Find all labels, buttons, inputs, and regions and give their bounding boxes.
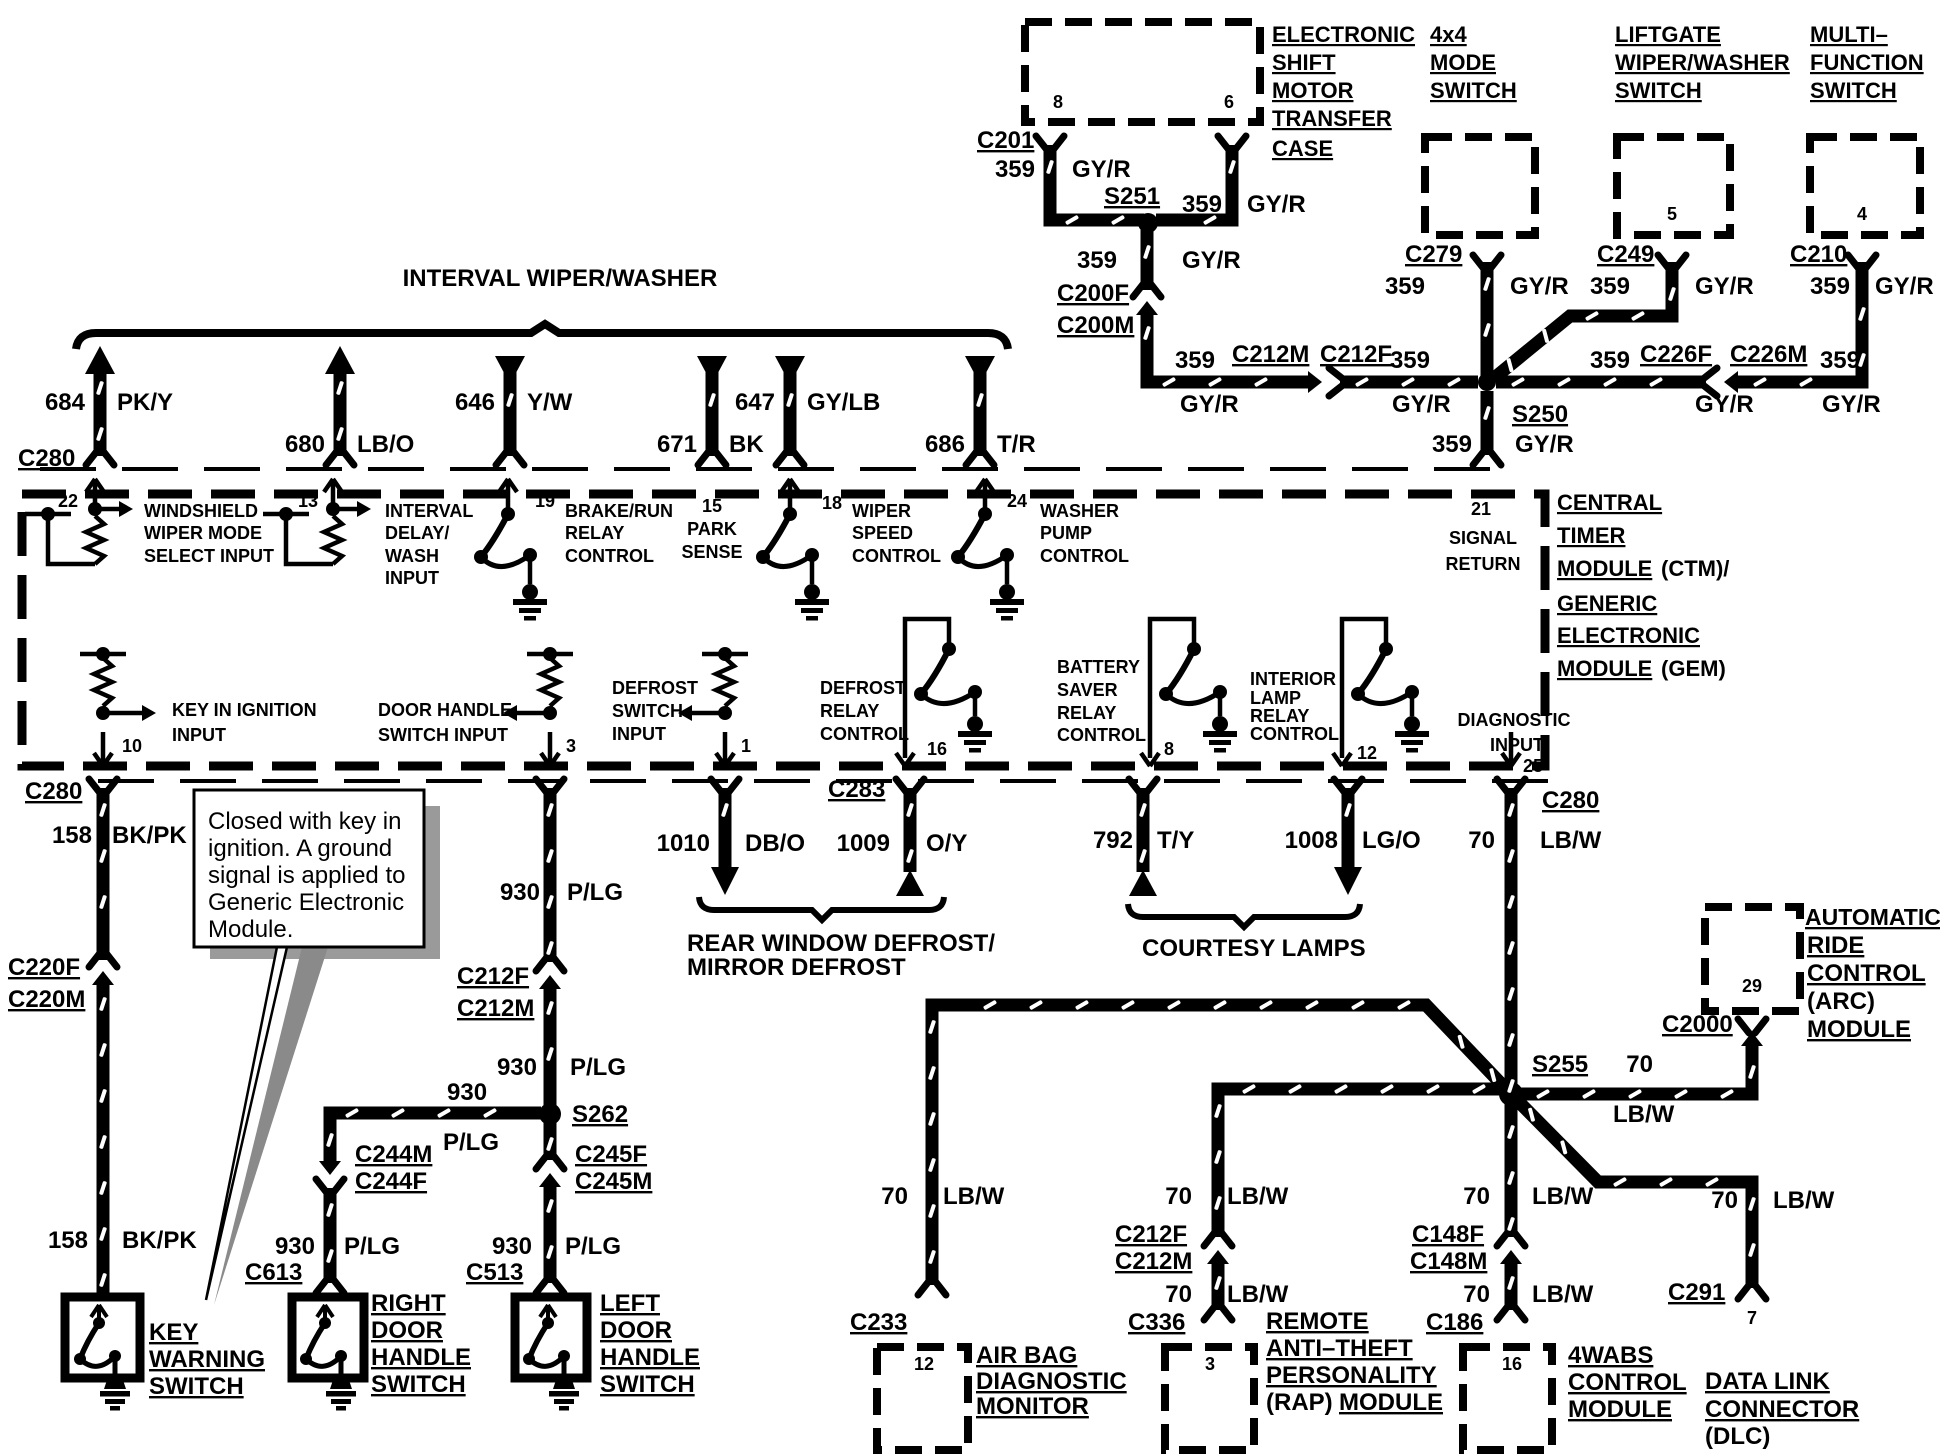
label BATTERY SAVER RELAY CONTROL xyxy=(1057,657,1146,745)
svg-text:GY/R: GY/R xyxy=(1182,247,1241,274)
arrow 1009 up-triangle xyxy=(896,870,924,896)
svg-text:6: 6 xyxy=(1224,92,1234,112)
svg-text:12: 12 xyxy=(914,1354,934,1374)
svg-text:1008: 1008 xyxy=(1285,827,1338,854)
svg-text:359: 359 xyxy=(1590,273,1630,300)
svg-text:8: 8 xyxy=(1053,92,1063,112)
svg-text:P/LG: P/LG xyxy=(565,1233,621,1260)
switch pin 16 (defrost relay control) xyxy=(896,619,992,766)
svg-text:INPUT: INPUT xyxy=(385,568,439,588)
svg-text:AUTOMATIC: AUTOMATIC xyxy=(1805,904,1940,930)
svg-text:5: 5 xyxy=(1667,204,1677,224)
svg-text:C226M: C226M xyxy=(1730,341,1807,368)
svg-text:SELECT INPUT: SELECT INPUT xyxy=(144,546,274,566)
wire 359 GY/R from S250 to CTM pin 21 xyxy=(1481,391,1494,455)
svg-text:CONTROL: CONTROL xyxy=(1807,960,1926,987)
wire 158 BK/PK from C220M to key warning switch xyxy=(97,982,110,1297)
svg-text:C249: C249 xyxy=(1597,241,1654,268)
svg-text:INPUT: INPUT xyxy=(1490,735,1544,755)
resistor input pin 1 (defrost switch) xyxy=(678,647,748,766)
svg-text:25: 25 xyxy=(1523,756,1543,776)
svg-text:CASE: CASE xyxy=(1272,136,1333,161)
switch pin 19 (brake/run relay control) xyxy=(474,479,547,621)
svg-text:GENERIC: GENERIC xyxy=(1557,591,1657,616)
pin 1 wire top flare xyxy=(711,779,739,793)
svg-text:INPUT: INPUT xyxy=(172,725,226,745)
wire 70 LB/W from CTM pin 25 through S255 to C148F xyxy=(1505,788,1518,1237)
label DOOR HANDLE SWITCH INPUT xyxy=(378,700,512,745)
svg-text:S251: S251 xyxy=(1104,183,1160,210)
label DEFROST RELAY CONTROL xyxy=(820,678,909,744)
label LEFT DOOR HANDLE SWITCH xyxy=(600,1290,700,1398)
wire 359 GY/R from S251 to C200 xyxy=(1141,230,1154,290)
svg-text:FUNCTION: FUNCTION xyxy=(1810,50,1924,75)
wire stripe highlights xyxy=(96,160,1866,1291)
svg-text:CONTROL: CONTROL xyxy=(852,546,941,566)
label INTERVAL DELAY/WASH INPUT xyxy=(385,501,473,588)
resistor input pin 13 (interval delay/wash) xyxy=(263,479,371,564)
connector line C280 (thin dashed, top of module) xyxy=(40,467,1508,471)
svg-text:MOTOR: MOTOR xyxy=(1272,78,1354,103)
callout pointer xyxy=(206,947,287,1300)
svg-text:C212F: C212F xyxy=(457,963,529,990)
svg-text:Module.: Module. xyxy=(208,916,293,943)
svg-text:BATTERY: BATTERY xyxy=(1057,657,1140,677)
svg-text:DATA LINK: DATA LINK xyxy=(1705,1368,1831,1395)
svg-text:RELAY: RELAY xyxy=(1057,703,1116,723)
svg-text:RELAY: RELAY xyxy=(820,701,879,721)
svg-text:GY/LB: GY/LB xyxy=(807,389,880,416)
svg-text:1: 1 xyxy=(741,736,751,756)
svg-text:MODULE: MODULE xyxy=(1568,1396,1672,1423)
svg-text:Y/W: Y/W xyxy=(527,389,573,416)
svg-text:SWITCH INPUT: SWITCH INPUT xyxy=(378,725,508,745)
wire 1009 O/Y from CTM pin 16 (C283) xyxy=(904,788,917,872)
svg-text:24: 24 xyxy=(1007,491,1027,511)
svg-text:CENTRAL: CENTRAL xyxy=(1557,490,1662,515)
svg-text:RELAY: RELAY xyxy=(1250,706,1309,726)
svg-text:TRANSFER: TRANSFER xyxy=(1272,106,1392,131)
wire 930 P/LG from S262 to C245F xyxy=(544,1122,557,1160)
svg-text:21: 21 xyxy=(1471,499,1491,519)
svg-text:359: 359 xyxy=(1810,273,1850,300)
svg-text:C212M: C212M xyxy=(457,995,534,1022)
svg-text:70: 70 xyxy=(1468,827,1495,854)
label BRAKE/RUN RELAY CONTROL xyxy=(565,501,673,566)
brace rear window defrost xyxy=(699,897,944,920)
svg-text:70: 70 xyxy=(1165,1183,1192,1210)
connector C200F/C200M (inline) xyxy=(1133,283,1161,315)
svg-text:(DLC): (DLC) xyxy=(1705,1423,1770,1450)
svg-text:PARK: PARK xyxy=(687,519,737,539)
label RIGHT DOOR HANDLE SWITCH xyxy=(371,1290,471,1398)
svg-text:KEY: KEY xyxy=(149,1319,198,1346)
svg-text:LEFT: LEFT xyxy=(600,1290,660,1317)
connector C244M/C244F (inline) xyxy=(316,1161,344,1193)
svg-text:WIPER: WIPER xyxy=(852,501,911,521)
svg-text:WASHER: WASHER xyxy=(1040,501,1119,521)
connector C210 flare xyxy=(1848,255,1876,269)
svg-text:DELAY/: DELAY/ xyxy=(385,523,449,543)
svg-text:P/LG: P/LG xyxy=(567,879,623,906)
splice S262 xyxy=(539,1103,561,1125)
svg-text:INPUT: INPUT xyxy=(612,724,666,744)
svg-text:BK: BK xyxy=(729,431,764,458)
wire 70 LB/W from S255 to air bag diagnostic monitor C233 xyxy=(932,1005,1508,1285)
svg-text:MULTI–: MULTI– xyxy=(1810,22,1888,47)
svg-text:C279: C279 xyxy=(1405,241,1462,268)
svg-text:T/Y: T/Y xyxy=(1157,827,1194,854)
wire 359 GY/R from transfer case pin 6 to S251 xyxy=(1156,145,1232,220)
svg-text:RIGHT: RIGHT xyxy=(371,1290,446,1317)
svg-text:3: 3 xyxy=(566,736,576,756)
svg-text:ELECTRONIC: ELECTRONIC xyxy=(1557,623,1700,648)
connector C513 flare xyxy=(536,1279,564,1293)
svg-text:LB/W: LB/W xyxy=(1532,1281,1594,1308)
svg-text:RETURN: RETURN xyxy=(1446,554,1521,574)
svg-text:GY/R: GY/R xyxy=(1247,191,1306,218)
svg-text:C148F: C148F xyxy=(1412,1221,1484,1248)
svg-text:15: 15 xyxy=(702,496,722,516)
pin 10 wire top flare xyxy=(89,779,117,793)
svg-text:29: 29 xyxy=(1742,976,1762,996)
svg-text:CONTROL: CONTROL xyxy=(565,546,654,566)
svg-text:signal is applied to: signal is applied to xyxy=(208,862,405,889)
label REAR WINDOW DEFROST/ MIRROR DEFROST xyxy=(687,930,995,981)
wire 686 T/R (pin riser) xyxy=(965,356,995,465)
svg-text:16: 16 xyxy=(927,739,947,759)
svg-text:C220F: C220F xyxy=(8,954,80,981)
svg-text:C244F: C244F xyxy=(355,1168,427,1195)
svg-text:LB/W: LB/W xyxy=(1773,1187,1835,1214)
bracket interval wiper/washer xyxy=(76,324,1008,349)
svg-text:MODULE: MODULE xyxy=(1557,656,1652,681)
svg-text:(CTM)/: (CTM)/ xyxy=(1661,556,1729,581)
svg-text:REMOTE: REMOTE xyxy=(1266,1308,1369,1335)
svg-text:1010: 1010 xyxy=(657,830,710,857)
pin 25 arrow (diagnostic input) xyxy=(1502,732,1520,766)
connector C212M/C212F (inline) xyxy=(1308,368,1343,396)
wire 70 LB/W from C148M to C186 xyxy=(1505,1261,1518,1310)
svg-text:MODULE: MODULE xyxy=(1807,1016,1911,1043)
wire 70 LB/W from C212M to C336 xyxy=(1212,1261,1225,1310)
svg-text:LB/W: LB/W xyxy=(1540,827,1602,854)
svg-text:C245F: C245F xyxy=(575,1141,647,1168)
svg-text:ignition. A ground: ignition. A ground xyxy=(208,835,392,862)
wire 1008 LG/O from CTM pin 12 xyxy=(1342,788,1355,868)
svg-text:3: 3 xyxy=(1205,1354,1215,1374)
connector C212F/C212M (inline on 930) xyxy=(536,957,564,989)
connector C2000 (inline) xyxy=(1738,1019,1766,1046)
splice S251 xyxy=(1138,213,1158,233)
label AIR BAG DIAGNOSTIC MONITOR xyxy=(976,1342,1127,1420)
svg-text:P/LG: P/LG xyxy=(570,1054,626,1081)
connector C233 flare xyxy=(918,1281,946,1295)
connector C291 flare xyxy=(1738,1285,1766,1299)
svg-text:LIFTGATE: LIFTGATE xyxy=(1615,22,1721,47)
svg-text:PK/Y: PK/Y xyxy=(117,389,173,416)
label DEFROST SWITCH INPUT xyxy=(612,678,698,744)
svg-text:CONTROL: CONTROL xyxy=(1057,725,1146,745)
connector C212F/C212M (inline RAP drop) xyxy=(1204,1232,1232,1264)
svg-text:4WABS: 4WABS xyxy=(1568,1342,1653,1369)
svg-text:C291: C291 xyxy=(1668,1279,1725,1306)
callout shadow xyxy=(210,806,440,959)
svg-text:DOOR: DOOR xyxy=(371,1317,443,1344)
connector C249 flare xyxy=(1658,255,1686,269)
svg-text:686: 686 xyxy=(925,431,965,458)
svg-text:LB/W: LB/W xyxy=(943,1183,1005,1210)
svg-text:LB/O: LB/O xyxy=(357,431,414,458)
svg-text:GY/R: GY/R xyxy=(1695,391,1754,418)
svg-text:MODULE: MODULE xyxy=(1339,1389,1443,1416)
label WASHER PUMP CONTROL xyxy=(1040,501,1129,566)
switch pin 8 (battery saver relay control) xyxy=(1141,619,1237,766)
svg-text:DIAGNOSTIC: DIAGNOSTIC xyxy=(976,1368,1127,1395)
svg-text:C212F: C212F xyxy=(1320,341,1392,368)
svg-text:C210: C210 xyxy=(1790,241,1847,268)
svg-text:18: 18 xyxy=(822,493,842,513)
pin 3 wire top flare xyxy=(536,779,564,793)
svg-text:SWITCH: SWITCH xyxy=(371,1371,466,1398)
svg-text:CONTROL: CONTROL xyxy=(1040,546,1129,566)
svg-text:DIAGNOSTIC: DIAGNOSTIC xyxy=(1457,710,1570,730)
svg-text:C2000: C2000 xyxy=(1662,1011,1733,1038)
svg-text:7: 7 xyxy=(1747,1308,1757,1328)
svg-text:158: 158 xyxy=(48,1227,88,1254)
svg-text:TIMER: TIMER xyxy=(1557,523,1626,548)
pin 16 wire top flare xyxy=(896,779,924,793)
svg-text:158: 158 xyxy=(52,822,92,849)
svg-text:C220M: C220M xyxy=(8,986,85,1013)
svg-text:359: 359 xyxy=(1385,273,1425,300)
svg-text:S262: S262 xyxy=(572,1101,628,1128)
svg-text:AIR BAG: AIR BAG xyxy=(976,1342,1077,1369)
svg-text:16: 16 xyxy=(1502,1354,1522,1374)
label MULTI-FUNCTION SWITCH xyxy=(1810,22,1924,103)
wire 359 GY/R from C212F to S250 xyxy=(1340,376,1478,389)
svg-text:70: 70 xyxy=(881,1183,908,1210)
svg-text:MODE: MODE xyxy=(1430,50,1496,75)
svg-text:HANDLE: HANDLE xyxy=(600,1344,700,1371)
svg-text:GY/R: GY/R xyxy=(1875,273,1934,300)
svg-text:SWITCH: SWITCH xyxy=(600,1371,695,1398)
svg-text:C513: C513 xyxy=(466,1259,523,1286)
wire 359 GY/R from C200 to C212M xyxy=(1147,311,1310,382)
svg-text:359: 359 xyxy=(1590,347,1630,374)
svg-text:MODULE: MODULE xyxy=(1557,556,1652,581)
svg-text:RIDE: RIDE xyxy=(1807,932,1864,959)
svg-text:C245M: C245M xyxy=(575,1168,652,1195)
svg-text:SHIFT: SHIFT xyxy=(1272,50,1336,75)
label 4WABS CONTROL MODULE xyxy=(1568,1342,1687,1423)
svg-text:70: 70 xyxy=(1463,1281,1490,1308)
label KEY WARNING SWITCH xyxy=(149,1319,265,1400)
wire 684 PK/Y (pin riser) xyxy=(85,346,115,465)
svg-text:70: 70 xyxy=(1165,1281,1192,1308)
svg-text:4x4: 4x4 xyxy=(1430,22,1467,47)
svg-text:C212M: C212M xyxy=(1115,1248,1192,1275)
svg-text:RELAY: RELAY xyxy=(565,523,624,543)
component box MULTI-FUNCTION SWITCH (dashed) xyxy=(1810,137,1920,235)
svg-text:C613: C613 xyxy=(245,1259,302,1286)
svg-text:REAR WINDOW DEFROST/: REAR WINDOW DEFROST/ xyxy=(687,930,995,957)
wire 930 P/LG from CTM pin 3 to C212F xyxy=(544,788,557,962)
svg-text:C280: C280 xyxy=(1542,787,1599,814)
svg-text:CONTROL: CONTROL xyxy=(820,724,909,744)
svg-text:INTERIOR: INTERIOR xyxy=(1250,669,1336,689)
svg-text:ELECTRONIC: ELECTRONIC xyxy=(1272,22,1415,47)
svg-text:DB/O: DB/O xyxy=(745,830,805,857)
svg-text:ANTI–THEFT: ANTI–THEFT xyxy=(1266,1335,1413,1362)
svg-text:SIGNAL: SIGNAL xyxy=(1449,528,1517,548)
connector flare (transfer case pin 6) xyxy=(1218,136,1246,150)
wire 671 BK (pin riser) xyxy=(697,356,727,465)
component box 4WABS CONTROL MODULE (dashed) xyxy=(1463,1347,1552,1450)
svg-text:Closed with key in: Closed with key in xyxy=(208,808,401,835)
svg-text:671: 671 xyxy=(657,431,697,458)
svg-text:22: 22 xyxy=(58,491,78,511)
svg-text:WASH: WASH xyxy=(385,546,439,566)
svg-text:(ARC): (ARC) xyxy=(1807,988,1875,1015)
wire 930 P/LG from C244F to C613 xyxy=(324,1188,337,1283)
svg-text:13: 13 xyxy=(298,491,318,511)
svg-text:C212M: C212M xyxy=(1232,341,1309,368)
component box REMOTE ANTI-THEFT PERSONALITY (RAP) MODULE (dashed) xyxy=(1165,1347,1254,1450)
wire 930 P/LG from C245M to C513 xyxy=(544,1184,557,1283)
resistor input pin 3 (door handle switch) xyxy=(503,647,573,766)
svg-text:1009: 1009 xyxy=(837,830,890,857)
svg-text:646: 646 xyxy=(455,389,495,416)
svg-text:70: 70 xyxy=(1711,1187,1738,1214)
svg-text:WIPER/WASHER: WIPER/WASHER xyxy=(1615,50,1790,75)
connector C336 flare xyxy=(1204,1306,1232,1320)
svg-text:930: 930 xyxy=(500,879,540,906)
wire 359 GY/R from 4x4 mode switch C279 to S250 xyxy=(1481,262,1494,376)
svg-text:930: 930 xyxy=(275,1233,315,1260)
svg-text:P/LG: P/LG xyxy=(443,1129,499,1156)
callout box xyxy=(194,790,424,947)
svg-text:680: 680 xyxy=(285,431,325,458)
svg-text:S255: S255 xyxy=(1532,1051,1588,1078)
svg-text:DEFROST: DEFROST xyxy=(612,678,698,698)
svg-text:DEFROST: DEFROST xyxy=(820,678,906,698)
wire 359 GY/R from S250 to C226F xyxy=(1496,376,1706,389)
svg-text:PUMP: PUMP xyxy=(1040,523,1092,543)
label LIFTGATE WIPER/WASHER SWITCH xyxy=(1615,22,1790,103)
svg-text:C212F: C212F xyxy=(1115,1221,1187,1248)
callout pointer shadow xyxy=(214,947,328,1305)
label 15 PARK SENSE xyxy=(681,496,742,562)
wire 158 BK/PK from CTM pin 10 to C220F xyxy=(97,788,110,960)
switch pin 18 (wiper speed control) xyxy=(756,479,829,621)
pin 25 wire top flare xyxy=(1497,779,1525,793)
svg-text:359: 359 xyxy=(995,156,1035,183)
switch pin 12 (interior lamp relay control) xyxy=(1333,619,1429,766)
svg-text:GY/R: GY/R xyxy=(1180,391,1239,418)
wire 930 P/LG from C212M to S262 xyxy=(544,986,557,1106)
svg-text:4: 4 xyxy=(1857,204,1867,224)
svg-text:C148M: C148M xyxy=(1410,1248,1487,1275)
component box AUTOMATIC RIDE CONTROL (ARC) MODULE (dashed) xyxy=(1705,907,1800,1011)
svg-text:Generic Electronic: Generic Electronic xyxy=(208,889,404,916)
svg-text:T/R: T/R xyxy=(997,431,1036,458)
connector C245F/C245M (inline) xyxy=(536,1155,564,1187)
svg-text:LAMP: LAMP xyxy=(1250,688,1301,708)
svg-text:19: 19 xyxy=(535,491,555,511)
svg-text:C201: C201 xyxy=(977,127,1034,154)
svg-text:930: 930 xyxy=(492,1233,532,1260)
brace courtesy lamps xyxy=(1128,904,1360,927)
svg-text:SWITCH: SWITCH xyxy=(1615,78,1702,103)
label 21 SIGNAL RETURN xyxy=(1446,499,1521,574)
svg-text:DOOR HANDLE: DOOR HANDLE xyxy=(378,700,512,720)
svg-text:LB/W: LB/W xyxy=(1227,1183,1289,1210)
switch RIGHT DOOR HANDLE SWITCH (box) xyxy=(292,1297,364,1411)
svg-text:SAVER: SAVER xyxy=(1057,680,1118,700)
svg-text:WIPER MODE: WIPER MODE xyxy=(144,523,262,543)
svg-text:SWITCH: SWITCH xyxy=(149,1373,244,1400)
svg-text:(GEM): (GEM) xyxy=(1661,656,1726,681)
svg-text:CONTROL: CONTROL xyxy=(1568,1369,1687,1396)
label 4x4 MODE SWITCH xyxy=(1430,22,1517,103)
svg-text:C200M: C200M xyxy=(1057,312,1134,339)
pin 21 wire foot flare xyxy=(1473,451,1501,465)
label DATA LINK CONNECTOR (DLC) xyxy=(1705,1368,1859,1450)
svg-text:C186: C186 xyxy=(1426,1309,1483,1336)
svg-text:COURTESY LAMPS: COURTESY LAMPS xyxy=(1142,935,1366,962)
svg-text:INTERVAL: INTERVAL xyxy=(385,501,473,521)
svg-text:GY/R: GY/R xyxy=(1510,273,1569,300)
svg-text:MIRROR DEFROST: MIRROR DEFROST xyxy=(687,954,906,981)
svg-text:C233: C233 xyxy=(850,1309,907,1336)
svg-text:SWITCH: SWITCH xyxy=(1810,78,1897,103)
svg-text:684: 684 xyxy=(45,389,86,416)
svg-text:(RAP): (RAP) xyxy=(1266,1389,1333,1416)
svg-text:359: 359 xyxy=(1077,247,1117,274)
wire 359 GY/R from C226M to multi-function switch C210 xyxy=(1738,262,1862,382)
arrow 1008 down xyxy=(1334,867,1362,895)
arrow 1010 down xyxy=(711,867,739,895)
wire 70 LB/W from S255 to RAP module C336 xyxy=(1218,1089,1501,1237)
switch KEY WARNING SWITCH (box) xyxy=(65,1297,140,1411)
svg-text:C226F: C226F xyxy=(1640,341,1712,368)
svg-text:SPEED: SPEED xyxy=(852,523,913,543)
svg-text:359: 359 xyxy=(1175,347,1215,374)
svg-text:359: 359 xyxy=(1390,347,1430,374)
svg-text:LB/W: LB/W xyxy=(1227,1281,1289,1308)
label WIPER SPEED CONTROL xyxy=(852,501,941,566)
svg-text:GY/R: GY/R xyxy=(1392,391,1451,418)
resistor input pin 10 (key in ignition) xyxy=(80,647,156,766)
label AUTOMATIC RIDE CONTROL (ARC) MODULE xyxy=(1805,904,1940,1043)
svg-text:CONTROL: CONTROL xyxy=(1250,724,1339,744)
svg-text:GY/R: GY/R xyxy=(1695,273,1754,300)
pin 12 wire top flare xyxy=(1334,779,1362,793)
svg-text:MONITOR: MONITOR xyxy=(976,1393,1089,1420)
connector flare (transfer case pin 8) xyxy=(1036,136,1064,150)
wire 359 GY/R from transfer case pin 8 to S251 xyxy=(1050,145,1144,220)
label INTERIOR LAMP RELAY CONTROL xyxy=(1250,669,1339,744)
svg-text:C280: C280 xyxy=(25,778,82,805)
svg-text:10: 10 xyxy=(122,736,142,756)
pin 8 wire top flare xyxy=(1129,779,1157,793)
svg-text:BK/PK: BK/PK xyxy=(112,822,187,849)
svg-text:C336: C336 xyxy=(1128,1309,1185,1336)
svg-text:70: 70 xyxy=(1463,1183,1490,1210)
component box LIFTGATE WIPER/WASHER SWITCH (dashed) xyxy=(1617,137,1730,235)
component box 4x4 MODE SWITCH (dashed) xyxy=(1425,137,1535,235)
